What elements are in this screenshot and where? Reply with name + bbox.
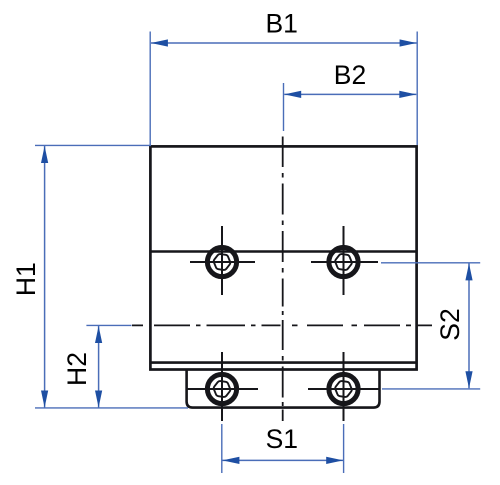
S1 arrow right bbox=[326, 457, 343, 464]
dimension S2 extension line bottom bbox=[382, 388, 480, 390]
bottom flange bbox=[187, 370, 380, 408]
dimension B1 line bbox=[151, 42, 417, 44]
body seam line bbox=[150, 250, 417, 253]
dimension H1/H2 extension line bottom bbox=[35, 407, 188, 409]
horizontal centerline bbox=[132, 324, 432, 326]
dimension B1 extension line right bbox=[416, 32, 418, 146]
screw M4 bottom-right bbox=[329, 374, 358, 403]
dimension S2 line bbox=[468, 263, 470, 388]
dimension H2 line bbox=[98, 326, 100, 408]
S1 arrow left bbox=[222, 457, 239, 464]
svg-text:H1: H1 bbox=[11, 262, 41, 296]
H2 arrow up bbox=[95, 326, 102, 343]
screw M3 bottom-left center marks bbox=[187, 388, 258, 390]
dimension H1 extension line top bbox=[35, 144, 151, 146]
H1 arrow down bbox=[41, 391, 48, 408]
dimension H2 extension line top bbox=[86, 324, 131, 326]
screw M2 top-right center marks bbox=[311, 261, 378, 263]
dimension H1 line bbox=[44, 146, 46, 408]
screw M2 top-right bbox=[329, 247, 358, 276]
dimension S1 extension line left bbox=[221, 424, 223, 473]
screw M1 top-left bbox=[207, 247, 236, 276]
svg-text:S2: S2 bbox=[435, 308, 465, 340]
S2 arrow up bbox=[465, 263, 472, 280]
dimension B2 extension line left bbox=[283, 83, 285, 131]
body outer rectangle bbox=[150, 146, 416, 369]
svg-text:S1: S1 bbox=[266, 424, 298, 454]
body inner bottom line bbox=[150, 361, 417, 364]
screw M3 bottom-left bbox=[207, 374, 236, 403]
screw M4 bottom-right center marks bbox=[308, 388, 380, 390]
dimension S1 line bbox=[222, 459, 343, 461]
B1 arrow right bbox=[400, 39, 417, 46]
B2 arrow left bbox=[284, 91, 301, 98]
B1 arrow left bbox=[151, 39, 168, 46]
dimension B1 extension line left bbox=[149, 32, 151, 146]
H2 arrow down bbox=[95, 391, 102, 408]
svg-text:B2: B2 bbox=[334, 60, 366, 90]
svg-text:H2: H2 bbox=[62, 352, 92, 386]
svg-text:B1: B1 bbox=[265, 9, 297, 39]
vertical centerline bbox=[282, 137, 284, 422]
screw M1 top-left center marks bbox=[190, 261, 255, 263]
dimension S2 extension line top bbox=[381, 262, 480, 264]
dimension S1 extension line right bbox=[343, 424, 345, 473]
B2 arrow right bbox=[399, 91, 416, 98]
S2 arrow down bbox=[465, 371, 472, 388]
dimension B2 line bbox=[284, 93, 416, 95]
H1 arrow up bbox=[41, 146, 48, 163]
